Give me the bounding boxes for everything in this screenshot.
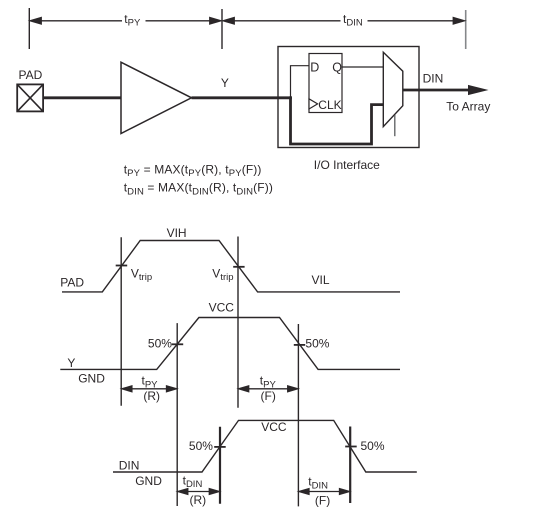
- tick Y falling 50%: [294, 344, 305, 346]
- reference line Y falling 50%: [297, 324, 299, 506]
- DIN waveform: [113, 420, 417, 472]
- svg-text:tPY: tPY: [260, 374, 277, 391]
- svg-text:VCC: VCC: [209, 301, 235, 315]
- svg-text:50%: 50%: [305, 337, 329, 351]
- tPY(R) dimension arrow: [122, 386, 177, 392]
- mux select stub: [394, 115, 396, 136]
- reference line PAD rising crossing: [120, 237, 122, 405]
- thick feedback wire to mux lower input: [291, 96, 384, 144]
- svg-text:tDIN: tDIN: [183, 473, 203, 490]
- wire pad to buffer: [44, 96, 121, 99]
- tick PAD falling Vtrip: [233, 266, 244, 268]
- svg-text:50%: 50%: [189, 439, 213, 453]
- clock triangle: [309, 99, 318, 109]
- svg-text:GND: GND: [78, 371, 105, 385]
- wire Q to mux: [342, 66, 383, 68]
- svg-text:DIN: DIN: [423, 72, 444, 86]
- svg-text:50%: 50%: [148, 337, 172, 351]
- Y waveform: [60, 318, 400, 370]
- DIN output arrowhead: [468, 85, 489, 95]
- dimension tick middle: [221, 9, 223, 49]
- svg-text:(F): (F): [315, 494, 330, 508]
- marker line DIN rising 50%: [219, 427, 221, 504]
- svg-text:50%: 50%: [361, 439, 385, 453]
- tick DIN rising 50%: [214, 446, 226, 448]
- wire buffer to I/O interface (Y net): [192, 96, 292, 99]
- svg-text:Y: Y: [67, 356, 75, 370]
- reference line Y rising 50%: [176, 323, 178, 506]
- svg-text:VIH: VIH: [167, 226, 187, 240]
- svg-text:(F): (F): [261, 389, 276, 403]
- svg-text:tDIN: tDIN: [308, 475, 328, 492]
- svg-text:CLK: CLK: [318, 98, 341, 112]
- svg-text:tPY: tPY: [124, 12, 141, 29]
- svg-text:D: D: [310, 61, 319, 75]
- reference line PAD falling crossing: [237, 237, 239, 408]
- tPY dimension arrow: [30, 18, 221, 24]
- svg-text:PAD: PAD: [60, 276, 84, 290]
- svg-text:VIL: VIL: [312, 273, 330, 287]
- DIN output wire: [403, 89, 469, 92]
- svg-text:Vtrip: Vtrip: [212, 266, 233, 283]
- svg-text:GND: GND: [135, 474, 162, 488]
- tDIN(R) dimension arrow: [178, 489, 220, 495]
- pad symbol: [17, 84, 43, 111]
- svg-text:tPY = MAX(tPY(R), tPY(F)): tPY = MAX(tPY(R), tPY(F)): [124, 162, 262, 179]
- dimension tick right: [465, 10, 467, 49]
- PAD waveform: [62, 241, 400, 292]
- wire to D input of flip-flop: [291, 66, 310, 98]
- svg-text:DIN: DIN: [119, 458, 140, 472]
- svg-text:(R): (R): [143, 389, 160, 403]
- svg-text:(R): (R): [190, 493, 207, 507]
- svg-text:PAD: PAD: [19, 68, 43, 82]
- tick Y rising 50%: [172, 343, 184, 345]
- tick DIN falling 50%: [345, 446, 357, 448]
- buffer U1: [121, 62, 192, 133]
- svg-text:Vtrip: Vtrip: [131, 266, 152, 283]
- tDIN(F) dimension arrow: [299, 489, 350, 495]
- tDIN dimension arrow: [223, 18, 464, 24]
- svg-text:VCC: VCC: [261, 420, 287, 434]
- svg-text:tPY: tPY: [142, 374, 159, 391]
- tPY(F) dimension arrow: [239, 386, 298, 392]
- D flip-flop U2: [309, 54, 342, 113]
- marker line DIN falling 50%: [349, 427, 351, 504]
- svg-text:Q: Q: [332, 61, 342, 75]
- mux U3: [383, 52, 403, 126]
- svg-text:tDIN: tDIN: [343, 12, 363, 29]
- I/O interface box: [278, 47, 419, 148]
- svg-text:I/O Interface: I/O Interface: [314, 158, 380, 172]
- svg-text:Y: Y: [221, 76, 229, 90]
- dimension tick left: [28, 8, 30, 49]
- tick PAD rising Vtrip: [116, 265, 128, 267]
- svg-text:tDIN = MAX(tDIN(R), tDIN(F)): tDIN = MAX(tDIN(R), tDIN(F)): [124, 181, 273, 198]
- svg-text:To Array: To Array: [446, 100, 490, 114]
